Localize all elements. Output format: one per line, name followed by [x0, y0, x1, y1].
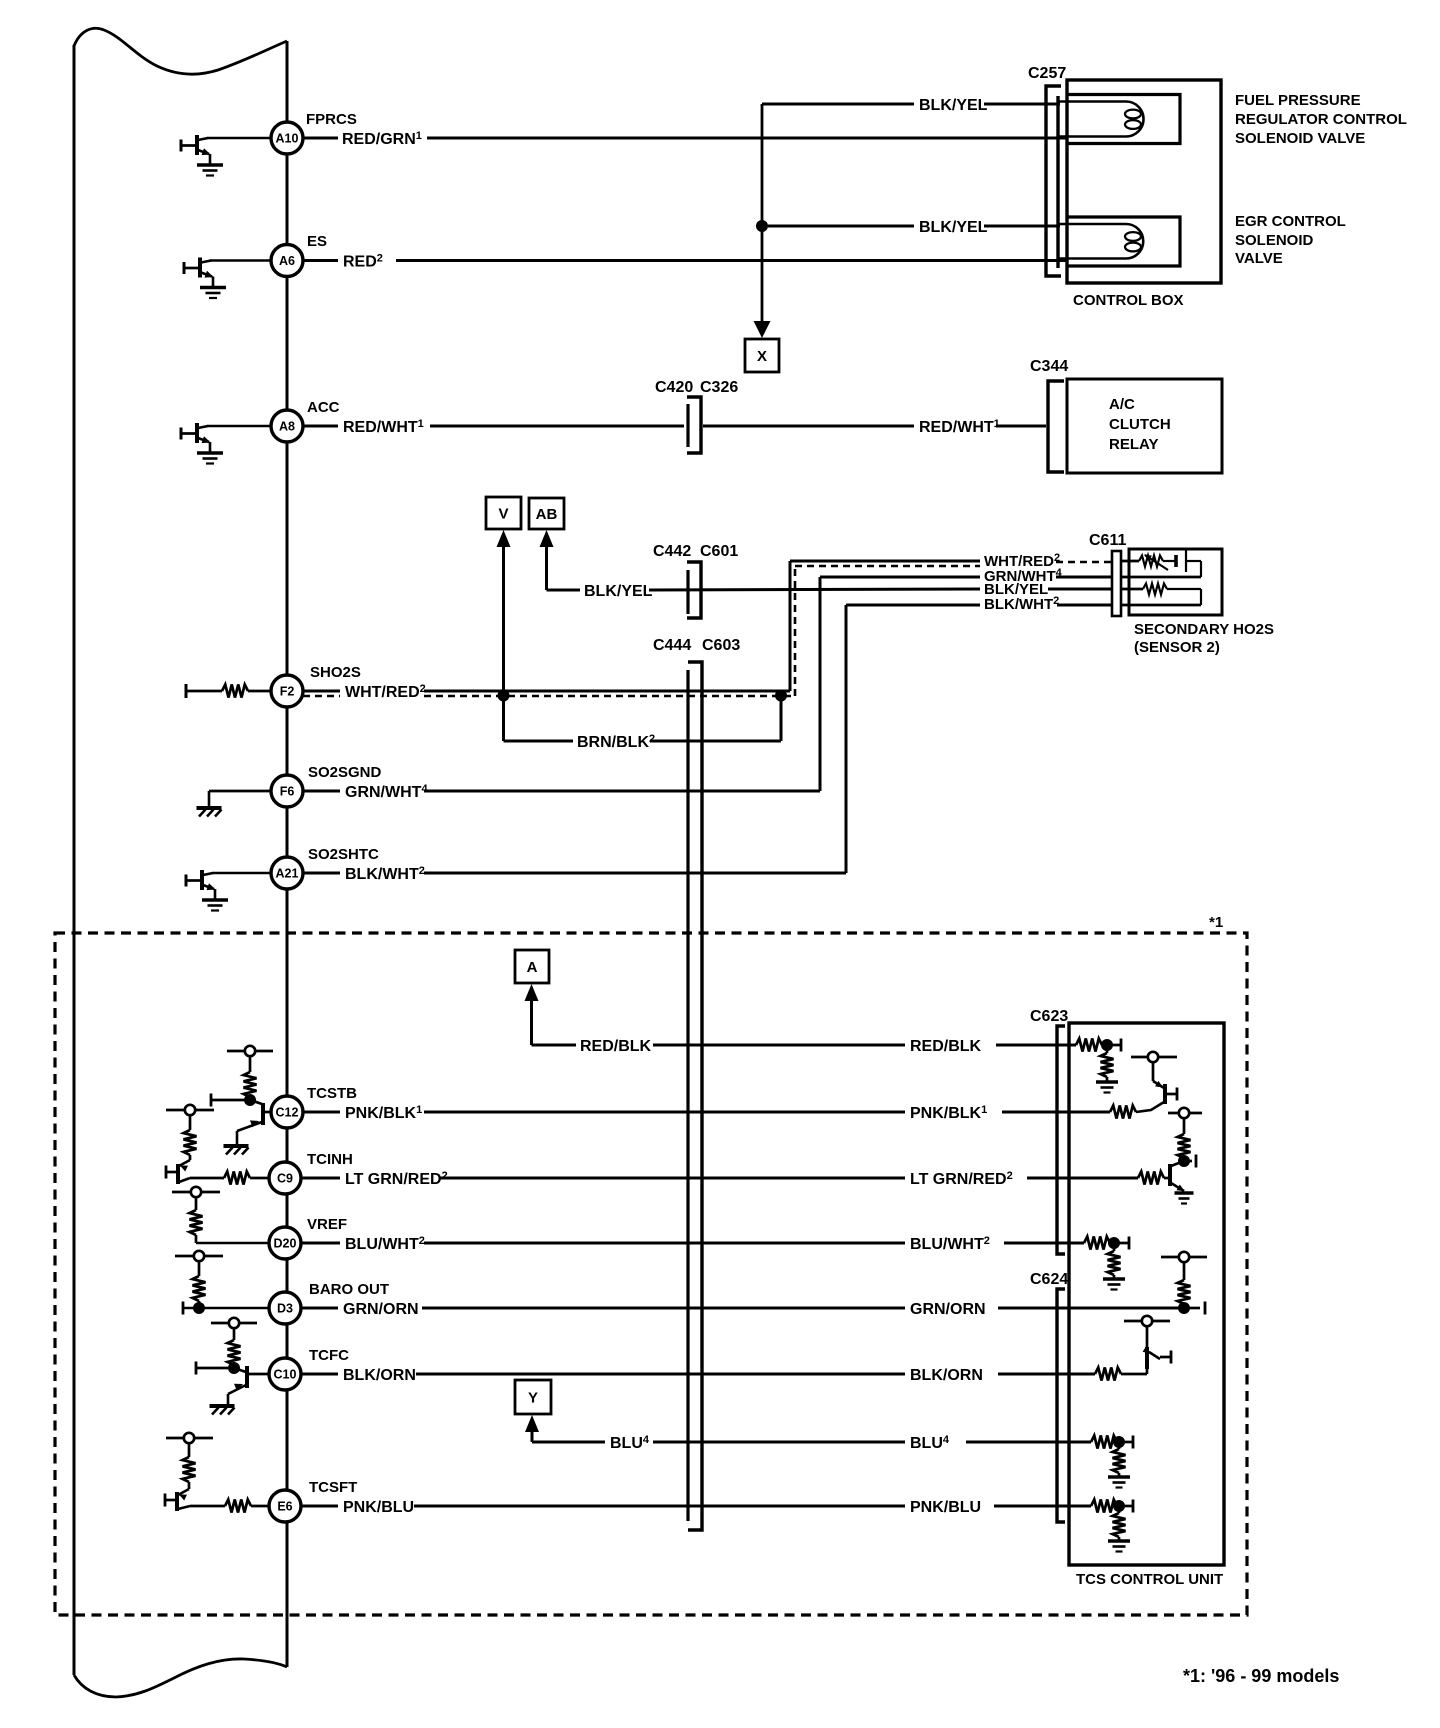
- value label PNK/BLK1 (left): [345, 1104, 422, 1122]
- terminal tick C12: [211, 1094, 245, 1107]
- junction T1: [1101, 1039, 1113, 1051]
- boundary dashed box *1: [55, 933, 1247, 1615]
- value label PNK/BLK1 (right): [910, 1104, 987, 1122]
- resistor R-T8b: [1113, 1511, 1126, 1537]
- svg-text:RED2: RED2: [343, 253, 383, 271]
- wire RED/GRN (A10 to C257): [303, 137, 1066, 140]
- supply terminal T-D3: [175, 1251, 223, 1261]
- value label RED/GRN1: [342, 130, 422, 148]
- wire GRN/ORN (left): [183, 1307, 905, 1310]
- svg-text:BLU/WHT2: BLU/WHT2: [910, 1235, 990, 1253]
- junction T8: [1113, 1500, 1125, 1512]
- svg-text:E6: E6: [277, 1500, 292, 1514]
- label EGR CONTROL SOLENOID VALVE: [1235, 213, 1346, 267]
- value label BLK/YEL (lower): [919, 219, 988, 236]
- connector C444/C603: [688, 662, 702, 1530]
- connector C344 label: [1030, 358, 1068, 375]
- terminal tick T4: [1128, 1237, 1131, 1250]
- value label BLK/YEL (upper): [919, 97, 988, 114]
- wire RED/BLK: [653, 1044, 1076, 1047]
- svg-text:C344: C344: [1030, 358, 1068, 375]
- value label PNK/BLU (right): [910, 1499, 981, 1516]
- svg-text:VREF: VREF: [307, 1216, 347, 1233]
- wire BLK/YEL lower (to C257): [768, 225, 1060, 228]
- supply terminal T-T6: [1124, 1316, 1170, 1326]
- label SO2SGND: [308, 764, 382, 781]
- value label BLK/WHT2 (left): [345, 865, 425, 883]
- resistor R-T7: [1091, 1436, 1133, 1449]
- value label RED/BLK (right): [910, 1038, 982, 1055]
- wire BLK/WHT (to C611): [303, 605, 1112, 873]
- svg-text:WHT/RED2: WHT/RED2: [345, 683, 426, 701]
- wire ECM torn top edge: [74, 28, 287, 74]
- resistor R-T5: [1178, 1262, 1191, 1304]
- wire Q4 to A21: [212, 872, 271, 875]
- supply terminal T-C12: [227, 1046, 273, 1056]
- resistor R-C12: [244, 1056, 257, 1097]
- wire V to shield junction: [502, 547, 505, 695]
- svg-text:BLK/WHT2: BLK/WHT2: [345, 865, 425, 883]
- supply terminal T-D20: [172, 1187, 220, 1197]
- svg-text:D3: D3: [277, 1302, 293, 1316]
- wire BLK/YEL branch (vertical): [761, 104, 764, 329]
- svg-text:X: X: [757, 348, 767, 365]
- wire LT GRN/RED (right): [1027, 1177, 1138, 1180]
- svg-text:TCSTB: TCSTB: [307, 1085, 357, 1102]
- svg-text:A6: A6: [279, 254, 295, 268]
- svg-text:REGULATOR CONTROL: REGULATOR CONTROL: [1235, 111, 1407, 128]
- connector C623 label: [1030, 1008, 1068, 1025]
- wire RED/WHT (C326 to C344): [703, 425, 1046, 428]
- box CONTROL BOX outline: [1067, 80, 1221, 283]
- connector C420/C326 labels: [655, 379, 738, 396]
- junction shield-V: [498, 690, 510, 702]
- junction D3: [193, 1302, 205, 1314]
- resistor R-T1b: [1101, 1050, 1114, 1077]
- svg-text:C420: C420: [655, 379, 693, 396]
- supply terminal T-T3: [1168, 1108, 1202, 1118]
- connector C257: [1046, 86, 1061, 276]
- node AB: [529, 498, 564, 529]
- svg-text:C611: C611: [1089, 532, 1126, 549]
- wire PNK/BLK (left): [303, 1111, 905, 1114]
- resistor R-T1: [1076, 1039, 1121, 1052]
- label SHO2S: [310, 664, 361, 681]
- supply terminal T-C10: [211, 1318, 257, 1328]
- svg-text:PNK/BLK1: PNK/BLK1: [910, 1104, 987, 1122]
- value label GRN/WHT4 (right): [984, 567, 1063, 585]
- arrow to V: [497, 530, 511, 547]
- wire BLK/YEL (to C611): [649, 589, 1112, 590]
- junction T5: [1178, 1302, 1190, 1314]
- wire BLU (left): [653, 1441, 905, 1444]
- pin E6: [269, 1490, 301, 1522]
- terminal tick D3: [182, 1302, 185, 1315]
- resistor R-T8: [1091, 1500, 1133, 1513]
- value label BLK/ORN (right): [910, 1367, 983, 1384]
- label SO2SHTC: [308, 846, 379, 863]
- resistor R-E6a: [183, 1443, 196, 1482]
- resistor R-D20: [190, 1197, 203, 1243]
- connector C624 label: [1030, 1271, 1068, 1288]
- label *1: [1209, 914, 1223, 931]
- svg-text:BRN/BLK2: BRN/BLK2: [577, 733, 655, 751]
- svg-text:A21: A21: [276, 867, 299, 881]
- supply terminal T-T5: [1161, 1252, 1207, 1262]
- resistor R-F2: [186, 684, 271, 698]
- node V: [486, 497, 521, 529]
- label CONTROL BOX: [1073, 292, 1184, 309]
- svg-text:C623: C623: [1030, 1008, 1068, 1025]
- pin D20: [269, 1227, 301, 1259]
- svg-text:BLK/WHT2: BLK/WHT2: [984, 595, 1059, 613]
- value label RED/BLK (left): [580, 1038, 652, 1055]
- wire PNK/BLK (right): [1002, 1111, 1110, 1114]
- box A/C CLUTCH RELAY: [1067, 379, 1222, 473]
- transistor Q5 (TCSTB): [224, 1100, 272, 1155]
- sensor heater (resistor): [1121, 584, 1201, 606]
- value label LT GRN/RED2 (left): [345, 1170, 448, 1188]
- pin C9: [269, 1162, 301, 1194]
- junction C12 collector: [244, 1094, 256, 1106]
- svg-text:RED/WHT1: RED/WHT1: [919, 418, 1000, 436]
- pin A21: [271, 857, 303, 889]
- node Y: [515, 1380, 551, 1414]
- value label WHT/RED2 (left): [345, 683, 426, 701]
- label FUEL PRESSURE REGULATOR CONTROL SOLENOID VALVE: [1235, 92, 1407, 147]
- junction C10 collector: [228, 1362, 240, 1374]
- value label GRN/ORN (left): [343, 1301, 419, 1318]
- wire PNK/BLU (right): [994, 1505, 1091, 1508]
- svg-text:BLK/ORN: BLK/ORN: [343, 1367, 416, 1384]
- junction T7: [1113, 1436, 1125, 1448]
- connector C623: [1057, 1026, 1065, 1254]
- wire Q3 to A8: [207, 425, 271, 428]
- svg-text:RED/GRN1: RED/GRN1: [342, 130, 422, 148]
- terminal tick C10: [196, 1362, 228, 1375]
- transistor Q1 (FPRCS driver): [181, 135, 223, 176]
- svg-text:RED/WHT1: RED/WHT1: [343, 418, 424, 436]
- junction T4: [1108, 1237, 1120, 1249]
- note *1: 96-99 models: [1183, 1666, 1339, 1686]
- ground G-T8: [1108, 1537, 1130, 1552]
- svg-text:*1: *1: [1209, 914, 1223, 931]
- svg-text:A/C: A/C: [1109, 396, 1135, 413]
- terminal tick T8: [1132, 1500, 1135, 1513]
- label VREF: [307, 1216, 347, 1233]
- svg-text:BLU4: BLU4: [910, 1434, 950, 1452]
- junction BLK/YEL: [756, 220, 768, 232]
- value label BLU4 (right): [910, 1434, 950, 1452]
- value label BLK/ORN (left): [343, 1367, 416, 1384]
- box TCS CONTROL UNIT: [1069, 1023, 1224, 1565]
- svg-text:*1: '96 - 99 models: *1: '96 - 99 models: [1183, 1666, 1339, 1686]
- value label GRN/WHT4 (left): [345, 783, 428, 801]
- svg-text:C603: C603: [702, 637, 740, 654]
- svg-text:PNK/BLU: PNK/BLU: [910, 1499, 981, 1516]
- connector C442/C601 labels: [653, 543, 738, 560]
- label TCINH: [307, 1151, 353, 1168]
- svg-text:(SENSOR 2): (SENSOR 2): [1134, 639, 1220, 656]
- svg-text:BLK/YEL: BLK/YEL: [584, 583, 653, 600]
- svg-text:GRN/ORN: GRN/ORN: [910, 1301, 986, 1318]
- wire Q1 to A10: [207, 137, 271, 140]
- transistor Q9 (TCSTB input): [1136, 1062, 1177, 1112]
- svg-text:FUEL PRESSURE: FUEL PRESSURE: [1235, 92, 1361, 109]
- label ACC: [307, 399, 340, 416]
- svg-text:TCSFT: TCSFT: [309, 1479, 357, 1496]
- ground G-T1: [1096, 1077, 1118, 1093]
- solenoid L2 EGR control solenoid valve: [1059, 217, 1180, 266]
- transistor Q10 (TCINH input): [1170, 1158, 1194, 1204]
- svg-text:A8: A8: [279, 420, 295, 434]
- connector C344: [1048, 381, 1064, 472]
- node X: [745, 339, 779, 372]
- transistor Q7 (TCFC): [210, 1366, 270, 1415]
- wire Y elbow: [532, 1432, 605, 1442]
- supply terminal T-C9: [166, 1105, 214, 1115]
- svg-text:RED/BLK: RED/BLK: [910, 1038, 982, 1055]
- svg-text:TCFC: TCFC: [309, 1347, 349, 1364]
- svg-text:C257: C257: [1028, 65, 1066, 82]
- pin F6: [271, 775, 303, 807]
- svg-text:GRN/ORN: GRN/ORN: [343, 1301, 419, 1318]
- svg-text:F6: F6: [280, 785, 295, 799]
- wire WHT/RED (solid): [303, 561, 980, 691]
- svg-text:AB: AB: [536, 506, 558, 523]
- connector C624: [1057, 1289, 1065, 1522]
- svg-text:CLUTCH: CLUTCH: [1109, 416, 1171, 433]
- value label BLU/WHT2 (right): [910, 1235, 990, 1253]
- svg-text:C442: C442: [653, 543, 691, 560]
- pin C12: [271, 1096, 303, 1128]
- wire Q2 to A6: [210, 259, 271, 262]
- svg-text:A: A: [527, 959, 538, 976]
- svg-text:C601: C601: [700, 543, 738, 560]
- svg-text:BLK/YEL: BLK/YEL: [919, 219, 988, 236]
- value label LT GRN/RED2 (right): [910, 1170, 1013, 1188]
- connector C444/C603 labels: [653, 637, 740, 654]
- svg-text:LT GRN/RED2: LT GRN/RED2: [910, 1170, 1013, 1188]
- svg-text:PNK/BLU: PNK/BLU: [343, 1499, 414, 1516]
- arrow to A: [525, 984, 539, 1001]
- svg-text:TCS CONTROL UNIT: TCS CONTROL UNIT: [1076, 1571, 1223, 1588]
- svg-text:C444: C444: [653, 637, 691, 654]
- label TCSFT: [309, 1479, 357, 1496]
- value label RED/WHT1 (left): [343, 418, 424, 436]
- wire BLU (right): [966, 1441, 1091, 1444]
- svg-text:GRN/WHT4: GRN/WHT4: [345, 783, 428, 801]
- wire F6 ground lead: [209, 790, 271, 793]
- wire ECM connector edge (vertical): [286, 41, 289, 1667]
- svg-text:A10: A10: [276, 132, 299, 146]
- svg-text:SO2SGND: SO2SGND: [308, 764, 382, 781]
- value label BLU/WHT2 (left): [345, 1235, 425, 1253]
- svg-text:RELAY: RELAY: [1109, 436, 1158, 453]
- pin A10: [271, 122, 303, 154]
- value label PNK/BLU (left): [343, 1499, 414, 1516]
- box SECONDARY HO2S: [1129, 549, 1222, 615]
- wire BLU/WHT (left): [196, 1242, 905, 1245]
- svg-text:ACC: ACC: [307, 399, 340, 416]
- resistor R-C9a: [184, 1115, 197, 1155]
- ground G-F6: [197, 791, 222, 817]
- svg-text:Y: Y: [528, 1390, 538, 1407]
- svg-text:C9: C9: [277, 1172, 293, 1186]
- value label BLU4 (left): [610, 1434, 650, 1452]
- terminal tick T7: [1132, 1436, 1135, 1449]
- svg-text:ES: ES: [307, 233, 327, 250]
- transistor Q4 (SO2SHTC driver): [186, 870, 228, 911]
- svg-text:LT GRN/RED2: LT GRN/RED2: [345, 1170, 448, 1188]
- svg-text:BLK/ORN: BLK/ORN: [910, 1367, 983, 1384]
- wire LT GRN/RED (left): [301, 1177, 905, 1180]
- svg-text:V: V: [498, 506, 508, 523]
- sensor element (variable resistor + cell): [1121, 549, 1201, 577]
- wire A elbow: [532, 1001, 577, 1045]
- svg-text:GRN/WHT4: GRN/WHT4: [984, 567, 1063, 585]
- value label WHT/RED2 (right): [984, 552, 1060, 570]
- label FPRCS: [306, 111, 357, 128]
- svg-text:SOLENOID: SOLENOID: [1235, 232, 1314, 249]
- wire GRN/WHT (to C611): [303, 577, 1112, 791]
- resistor R-T7b: [1113, 1447, 1126, 1473]
- value label BLK/WHT2 (right): [984, 595, 1059, 613]
- svg-text:C12: C12: [276, 1106, 299, 1120]
- svg-text:FPRCS: FPRCS: [306, 111, 357, 128]
- connector C442/C601: [687, 562, 701, 618]
- transistor Q3 (ACC driver): [181, 423, 223, 464]
- resistor R-T3b: [1138, 1172, 1169, 1185]
- connector C611 label: [1089, 532, 1126, 549]
- resistor R-T4b: [1108, 1248, 1121, 1275]
- wire PNK/BLU (left): [301, 1505, 905, 1508]
- resistor R-D3: [193, 1261, 206, 1308]
- resistor R-E6b: [190, 1500, 269, 1513]
- node A: [515, 950, 549, 983]
- svg-text:BLU/WHT2: BLU/WHT2: [345, 1235, 425, 1253]
- svg-text:F2: F2: [280, 685, 295, 699]
- terminal tick T3: [1184, 1155, 1196, 1168]
- junction shield-BRN/BLK: [775, 690, 787, 702]
- svg-text:CONTROL BOX: CONTROL BOX: [1073, 292, 1184, 309]
- connector C257 label: [1028, 65, 1066, 82]
- label SECONDARY HO2S (SENSOR 2): [1134, 621, 1274, 656]
- transistor Q6 (TCINH): [166, 1155, 190, 1184]
- wire ECM torn bottom edge: [74, 1659, 287, 1697]
- svg-text:C624: C624: [1030, 1271, 1068, 1288]
- value label BRN/BLK2: [577, 733, 655, 751]
- label BARO OUT: [309, 1281, 389, 1298]
- label TCFC: [309, 1347, 349, 1364]
- resistor R-T3: [1178, 1118, 1191, 1158]
- pin D3: [269, 1292, 301, 1324]
- wire ECM left edge: [73, 45, 76, 1675]
- resistor R-C10: [228, 1328, 241, 1365]
- supply terminal T-T2: [1131, 1052, 1177, 1062]
- svg-text:SECONDARY HO2S: SECONDARY HO2S: [1134, 621, 1274, 638]
- svg-text:C10: C10: [274, 1368, 297, 1382]
- wire RED (A6 to C257): [303, 259, 1066, 262]
- svg-text:EGR CONTROL: EGR CONTROL: [1235, 213, 1346, 230]
- wire RED/WHT (A8 to C420): [303, 425, 684, 428]
- svg-text:SO2SHTC: SO2SHTC: [308, 846, 379, 863]
- svg-text:BLK/YEL: BLK/YEL: [919, 97, 988, 114]
- svg-text:SHO2S: SHO2S: [310, 664, 361, 681]
- arrow to X: [754, 321, 771, 338]
- wire BLK/YEL upper (to C257): [762, 103, 1060, 106]
- svg-text:C326: C326: [700, 379, 738, 396]
- svg-text:D20: D20: [274, 1237, 297, 1251]
- wire shield (dashed): [303, 562, 1112, 696]
- value label RED2: [343, 253, 383, 271]
- resistor R-T4: [1076, 1237, 1129, 1250]
- value label GRN/ORN (right): [910, 1301, 986, 1318]
- pin A6: [271, 245, 303, 277]
- svg-text:BLU4: BLU4: [610, 1434, 650, 1452]
- svg-text:TCINH: TCINH: [307, 1151, 353, 1168]
- supply terminal T-E6: [166, 1433, 213, 1443]
- svg-text:BARO OUT: BARO OUT: [309, 1281, 389, 1298]
- value label BLK/YEL (sensor): [984, 581, 1048, 598]
- ground G-T7: [1108, 1473, 1130, 1488]
- svg-text:VALVE: VALVE: [1235, 250, 1283, 267]
- transistor Q11 (TCFC input): [1121, 1326, 1171, 1374]
- wire AB elbow: [547, 547, 581, 590]
- wire BLK/ORN (left): [301, 1373, 905, 1376]
- label ES: [307, 233, 327, 250]
- pin F2: [271, 675, 303, 707]
- transistor Q2 (ES driver): [184, 258, 226, 299]
- label TCS CONTROL UNIT: [1076, 1571, 1223, 1588]
- svg-text:RED/BLK: RED/BLK: [580, 1038, 652, 1055]
- wire BLK/ORN (right): [998, 1373, 1095, 1376]
- wire BRN/BLK (shield drain): [504, 696, 782, 742]
- connector C611: [1112, 551, 1121, 616]
- svg-text:PNK/BLK1: PNK/BLK1: [345, 1104, 422, 1122]
- value label BLK/YEL (AB): [584, 583, 653, 600]
- terminal tick T5: [1184, 1302, 1205, 1315]
- pin C10: [269, 1358, 301, 1390]
- arrow to Y: [525, 1415, 539, 1432]
- resistor R-C9b: [190, 1172, 269, 1185]
- value label RED/WHT1 (right): [919, 418, 1000, 436]
- svg-text:SOLENOID VALVE: SOLENOID VALVE: [1235, 130, 1365, 147]
- resistor R-T6: [1095, 1368, 1121, 1381]
- junction T3: [1178, 1155, 1190, 1167]
- label TCSTB: [307, 1085, 357, 1102]
- wire GRN/ORN (right): [998, 1307, 1180, 1310]
- terminal tick T1: [1120, 1039, 1123, 1052]
- arrow to AB: [540, 530, 554, 547]
- pin A8: [271, 410, 303, 442]
- transistor Q8 (TCSFT): [165, 1482, 190, 1511]
- ground G-T4: [1103, 1275, 1125, 1290]
- connector C420/C326: [687, 397, 701, 453]
- wire BLU/WHT (right): [1004, 1242, 1084, 1245]
- solenoid L1 fuel pressure regulator control solenoid valve: [1059, 95, 1180, 144]
- resistor R-T2: [1110, 1106, 1136, 1119]
